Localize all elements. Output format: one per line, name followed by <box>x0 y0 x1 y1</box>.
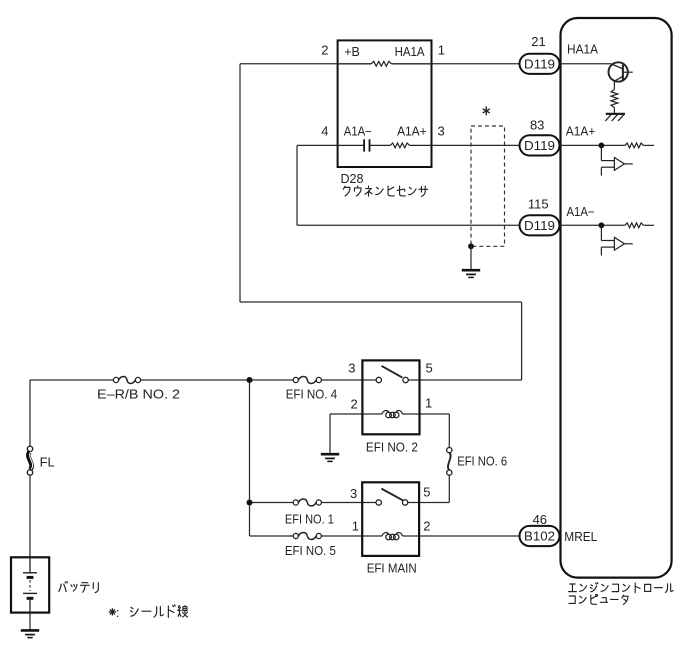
fuse EFI NO.6 (vertical) <box>447 448 452 476</box>
battery <box>11 557 49 612</box>
wire: +B riser horizontal <box>240 301 522 303</box>
svg-text:EFI NO. 4: EFI NO. 4 <box>286 387 338 402</box>
label kuunen-hi sensor (katakana) <box>343 186 427 196</box>
shield wire dashed outline <box>471 126 505 246</box>
wire: +B into sensor pin 2 <box>240 63 338 65</box>
ground: shield <box>462 270 480 277</box>
wire: D119-83 into ECU <box>560 144 625 146</box>
wire: sensor pin 1 HA1A to D119-21 <box>432 63 520 65</box>
svg-text:B102: B102 <box>524 529 555 544</box>
wire: D119-115 into ECU <box>560 224 625 226</box>
ground: EFI NO.2 coil <box>321 454 339 461</box>
relay EFI NO.2 switch <box>376 366 408 383</box>
svg-text:+B: +B <box>344 45 360 59</box>
svg-text:3: 3 <box>438 123 445 138</box>
svg-text:3: 3 <box>350 486 357 501</box>
wire: EFI MAIN switch pin 5 to EFI NO.6 <box>408 502 449 504</box>
wire: rail junction vertical to relays below <box>249 380 251 536</box>
wire: battery to ground <box>29 613 31 630</box>
svg-text:EFI NO. 2: EFI NO. 2 <box>366 440 418 455</box>
relay EFI NO.2 coil <box>382 411 403 418</box>
wire: EFI NO.6 fuse to EFI MAIN pin 5 <box>448 475 450 502</box>
wire: EFI NO.2 coil pin 1 horizontal <box>403 413 450 415</box>
svg-text:21: 21 <box>531 34 545 49</box>
svg-text:115: 115 <box>528 197 549 212</box>
svg-text:FL: FL <box>40 455 55 470</box>
junction: rail / EFI NO.4 branch <box>247 377 253 383</box>
wire: rail corner to EFI NO.5 fuse <box>250 535 294 537</box>
wire: D119-21 into ECU <box>560 63 612 65</box>
wire: transistor emitter <box>613 81 615 89</box>
svg-text::: : <box>116 605 120 620</box>
wire: +B riser vertical left <box>239 64 241 302</box>
svg-text:46: 46 <box>533 512 547 527</box>
wire: rail junction to EFI NO.1 fuse <box>250 502 294 504</box>
wire: +B riser vertical right <box>521 302 523 380</box>
svg-text:2: 2 <box>321 43 328 58</box>
svg-text:D119: D119 <box>524 138 555 153</box>
heater resistor inside sensor <box>371 61 391 66</box>
svg-text:5: 5 <box>423 485 430 500</box>
connector D119 pin 21 <box>520 54 560 74</box>
ground: battery negative <box>21 630 39 637</box>
svg-text:EFI NO. 6: EFI NO. 6 <box>457 454 507 469</box>
resistor (A1A+ input) <box>625 143 644 148</box>
wire: sensor pin 4 A1A- horizontal stub <box>297 144 338 146</box>
relay EFI MAIN coil <box>382 533 403 540</box>
asterisk marker <box>483 107 489 115</box>
op-amp buffer (A1A-) <box>601 225 632 255</box>
junction: shield to ground <box>468 243 474 249</box>
svg-text:D28: D28 <box>341 172 364 186</box>
svg-text:3: 3 <box>348 361 355 376</box>
junction: rail / EFI NO.1 branch <box>247 500 253 506</box>
connector D119 pin 83 <box>520 135 560 155</box>
wire: A1A- to D119-115 <box>297 224 520 226</box>
svg-text:EFI NO. 5: EFI NO. 5 <box>285 543 336 558</box>
label battery (katakana) <box>59 582 99 593</box>
svg-text:A1A+: A1A+ <box>566 125 596 139</box>
svg-text:D119: D119 <box>524 56 555 71</box>
wire: EFI NO.2 pin 2 ground drop <box>329 414 331 453</box>
footnote asterisk <box>109 609 115 615</box>
svg-text:EFI MAIN: EFI MAIN <box>367 561 417 576</box>
label engine control computer (katakana, 2 lines) <box>569 583 674 593</box>
relay EFI MAIN switch <box>376 489 408 506</box>
junction: A1A- buffer tap <box>599 222 605 228</box>
wire: EFI MAIN pin 2 to B102-46 <box>403 535 520 537</box>
svg-text:83: 83 <box>530 118 544 133</box>
oxygen sensor D28 box <box>338 40 432 167</box>
connector D119 pin 115 <box>520 215 560 235</box>
relay EFI NO.2 box <box>362 360 419 434</box>
wire: shield ground drop <box>470 246 472 269</box>
resistor (to chassis ground) <box>611 90 618 108</box>
svg-text:MREL: MREL <box>564 530 597 544</box>
svg-text:D119: D119 <box>524 218 555 233</box>
wire: EFI NO.5 fuse to EFI MAIN pin 1 <box>321 535 382 537</box>
svg-text:A1A−: A1A− <box>567 205 595 219</box>
svg-text:1: 1 <box>352 519 359 534</box>
fuse EFI NO.1 <box>293 499 321 506</box>
transistor (heater driver) <box>609 62 633 81</box>
connector B102 pin 46 <box>520 526 560 546</box>
wire: EFI NO.2 switch to +B riser corner <box>408 379 521 381</box>
junction: A1A+ buffer tap <box>599 143 605 149</box>
sensor cell capacitor <box>338 144 364 146</box>
svg-text:HA1A: HA1A <box>395 45 426 59</box>
wire: main rail EFI NO.4 fuse to EFI NO.2 pin 3 <box>321 379 376 381</box>
svg-text:2: 2 <box>423 519 430 534</box>
resistor (A1A- input) <box>625 223 644 228</box>
relay EFI MAIN box <box>362 482 419 556</box>
fuse E-R/B NO.2 <box>113 377 140 384</box>
wire: main rail E-R/B fuse to EFI NO.4 fuse <box>141 379 294 381</box>
wire: EFI NO.2 pin 1 drop to EFI NO.6 fuse <box>448 414 450 448</box>
wire: main rail to E-R/B fuse <box>30 379 113 381</box>
fuse EFI NO.5 <box>293 533 321 540</box>
wire: A1A- loop vertical <box>296 145 298 225</box>
svg-text:1: 1 <box>425 396 432 411</box>
svg-text:4: 4 <box>321 123 328 138</box>
wire: EFI NO.2 coil pin 2 horizontal <box>330 413 382 415</box>
fuse EFI NO.4 <box>293 377 321 384</box>
fusible link FL <box>27 446 32 475</box>
wire: sensor pin 3 A1A+ to D119-83 <box>432 144 520 146</box>
svg-text:1: 1 <box>438 43 445 58</box>
svg-text:A1A−: A1A− <box>344 124 372 138</box>
svg-text:HA1A: HA1A <box>567 43 599 57</box>
wire: battery positive rail vertical lower (left) <box>29 475 31 557</box>
svg-text:A1A+: A1A+ <box>397 124 427 138</box>
op-amp buffer (A1A+) <box>601 145 632 175</box>
ECU enclosure (engine control computer) <box>561 18 672 578</box>
svg-text:EFI NO. 1: EFI NO. 1 <box>285 512 334 527</box>
sensor output resistor <box>370 144 391 146</box>
chassis ground (hatched) <box>605 114 625 121</box>
wire: battery positive rail vertical upper (left) <box>29 380 31 446</box>
wire: EFI NO.1 fuse to EFI MAIN pin 3 <box>321 502 376 504</box>
footnote shield wire (katakana) <box>130 605 187 618</box>
svg-text:2: 2 <box>351 397 358 412</box>
svg-text:5: 5 <box>426 361 433 376</box>
sensor pin labels <box>344 45 427 138</box>
svg-text:E–R/B NO. 2: E–R/B NO. 2 <box>97 387 180 402</box>
